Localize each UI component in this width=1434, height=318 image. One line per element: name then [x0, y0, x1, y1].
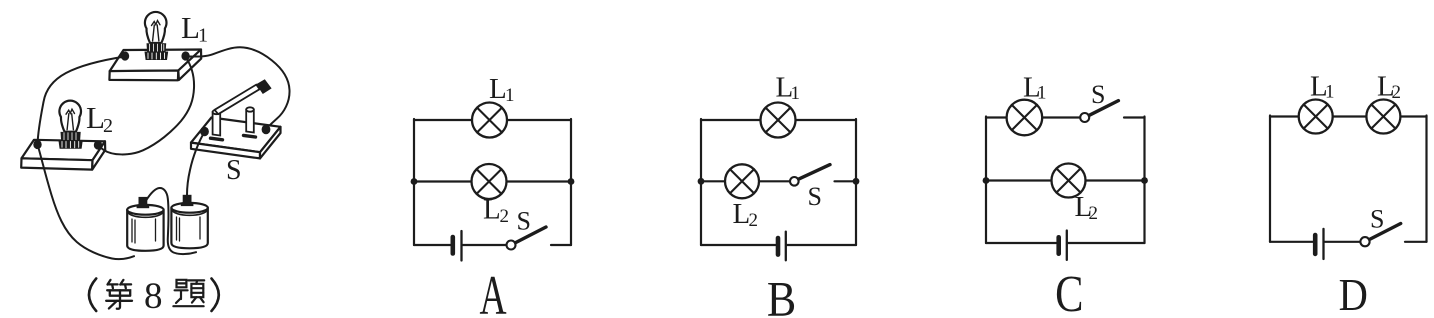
lamp L1 (circuit B) [761, 103, 796, 138]
switch S (circuit B) pivot [790, 177, 799, 186]
svg-text:L: L [483, 194, 501, 226]
svg-text:1: 1 [198, 25, 208, 47]
battery (circuit D) short plate [1313, 235, 1318, 254]
svg-text:1: 1 [1037, 83, 1047, 104]
lamp L1 left terminal [121, 51, 129, 60]
svg-text:S: S [1370, 205, 1384, 234]
wire: C middle-right segment [1086, 179, 1145, 181]
switch S screw slot left [211, 138, 223, 140]
node: A right junction [568, 178, 575, 185]
svg-text:B: B [767, 272, 796, 318]
node: A left junction [411, 178, 418, 185]
lamp L2 bulb [58, 101, 82, 149]
svg-text:A: A [479, 266, 507, 318]
wire: D bottom-left segment [1270, 241, 1313, 243]
wire: C right vertical [1143, 117, 1145, 244]
caption character Di (第) [106, 280, 132, 309]
wire: C bottom-left segment [986, 242, 1056, 244]
switch S left post [213, 110, 221, 136]
wire: D top-right segment [1400, 115, 1426, 117]
wire: B bottom-left segment [701, 244, 776, 246]
svg-text:2: 2 [1392, 82, 1402, 103]
switch S (circuit D) lever [1370, 224, 1401, 240]
svg-text:8: 8 [144, 276, 163, 317]
wire: L2 left terminal to left battery bottom [38, 145, 135, 260]
switch S (circuit C) lever [1089, 101, 1118, 116]
lamp L2 (circuit C) [1052, 164, 1086, 198]
lamp L2 (circuit B) [725, 164, 759, 198]
switch S lever arm [215, 85, 260, 115]
switch S screw slot right [244, 135, 256, 137]
wire: L1 right terminal to switch right terminal [186, 47, 290, 129]
lamp L1 right terminal [181, 51, 189, 60]
wire: D bottom-right segment [1405, 241, 1427, 243]
lamp L1 (circuit D) [1299, 100, 1333, 134]
lamp L2 base board [21, 140, 105, 170]
wire: B left vertical [700, 119, 702, 245]
wire: A middle-left segment [414, 180, 472, 182]
wire: B top-left segment [701, 119, 761, 121]
battery (circuit B) short plate [776, 238, 781, 255]
wire: A top-right segment [507, 119, 571, 121]
wire: C middle-left segment [986, 179, 1052, 181]
battery (circuit C) long plate [1066, 231, 1068, 260]
battery (circuit D) long plate [1322, 229, 1324, 259]
switch S base board [191, 118, 281, 159]
battery (circuit A) long plate [460, 231, 462, 261]
svg-text:1: 1 [1325, 82, 1335, 103]
lamp L1 (circuit A) [472, 103, 507, 138]
svg-text:2: 2 [1089, 203, 1099, 224]
node: C left junction [983, 177, 990, 184]
caption right parenthesis [212, 279, 219, 312]
switch S (circuit B) lever [799, 165, 830, 180]
svg-text:2: 2 [500, 206, 510, 227]
svg-text:2: 2 [103, 115, 113, 137]
wire: C top-left stub [986, 116, 1007, 118]
svg-text:C: C [1055, 266, 1083, 318]
lamp L2 left terminal [33, 140, 41, 149]
svg-text:1: 1 [505, 85, 515, 106]
wire: B switch-to-right segment [835, 180, 857, 182]
lamp L2 right terminal [94, 140, 102, 149]
wire: D battery-to-switch segment [1325, 241, 1361, 243]
wire: B top-right segment [796, 119, 857, 121]
node: B left junction [698, 178, 705, 185]
svg-text:2: 2 [749, 210, 759, 231]
caption character Ti (题) [173, 280, 204, 306]
wire: switch left terminal to right battery positive knob [187, 132, 205, 195]
switch S right terminal [262, 125, 271, 135]
node: C right junction [1141, 177, 1148, 184]
right battery cell [171, 203, 207, 248]
lamp L1 base board [109, 50, 201, 81]
wire: D top-left stub [1270, 115, 1299, 117]
wire: L1 left terminal to L2 left terminal [38, 57, 126, 145]
wire: D left vertical [1269, 116, 1271, 242]
switch S right post [246, 107, 254, 132]
switch S left terminal [200, 127, 209, 137]
battery (circuit A) short plate [450, 237, 455, 254]
switch S handle knob [256, 79, 271, 94]
wire: D between-lamps segment [1333, 115, 1367, 117]
node: B right junction [853, 178, 860, 185]
wire: D right vertical [1425, 116, 1427, 242]
wire: A left vertical [413, 119, 415, 245]
wire: C lamp-to-switch segment [1042, 116, 1080, 118]
svg-text:S: S [808, 182, 822, 211]
svg-text:1: 1 [791, 83, 801, 104]
lamp L1 (circuit C) [1007, 100, 1043, 136]
battery (circuit B) long plate [785, 232, 787, 261]
wire: C left vertical [985, 117, 987, 244]
wire: A middle-right segment [507, 180, 572, 182]
switch S (circuit A) pivot [507, 241, 516, 250]
wire: A battery-to-switch segment [463, 244, 507, 246]
left battery positive knob [137, 197, 150, 208]
wire: B bottom-right segment [787, 244, 856, 246]
wire: left battery knob to right battery bottom [146, 188, 196, 254]
wire: A top-left segment [414, 119, 472, 121]
wire: A right vertical [570, 119, 572, 245]
lamp L1 bulb [145, 12, 169, 60]
switch S (circuit D) pivot [1360, 237, 1369, 246]
wire: A bottom-right segment [551, 244, 571, 246]
wire: A bottom-left segment [414, 244, 450, 246]
wire: B middle-left stub [701, 180, 725, 182]
lamp L2 (circuit D) [1366, 100, 1400, 134]
caption left parenthesis [89, 279, 96, 312]
battery (circuit C) short plate [1056, 237, 1061, 253]
left battery cell [127, 205, 163, 251]
right battery positive knob [181, 195, 194, 206]
svg-text:S: S [517, 207, 531, 236]
switch S (circuit C) pivot [1080, 113, 1089, 122]
svg-text:S: S [1091, 80, 1105, 109]
wire: C bottom-right segment [1068, 242, 1145, 244]
switch S (circuit A) lever [516, 227, 546, 243]
wire: B right vertical [855, 119, 857, 245]
lamp L2 (circuit A) [472, 164, 507, 199]
wire: B lamp-to-switch segment [759, 180, 790, 182]
wire: C switch-to-right segment [1124, 116, 1145, 118]
svg-text:S: S [226, 155, 242, 186]
svg-text:D: D [1339, 271, 1368, 318]
wire: L1 right terminal to L2 right terminal [98, 57, 194, 154]
